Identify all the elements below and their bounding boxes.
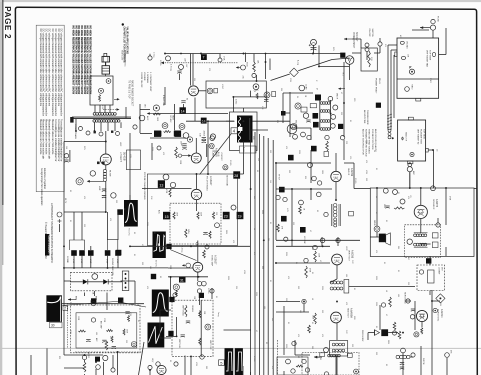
transformer core <box>72 117 131 119</box>
svg-text:1 MEG: 1 MEG <box>354 178 356 184</box>
arrow <box>314 356 322 359</box>
terminal ring <box>305 368 309 372</box>
ring on box edge <box>200 355 204 359</box>
svg-text:A 13A27: A 13A27 <box>209 176 212 186</box>
junction dot <box>322 245 324 247</box>
wire <box>343 128 345 137</box>
resistor <box>164 131 171 133</box>
test point 31 <box>179 277 186 283</box>
terminal ring <box>320 238 325 243</box>
terminal ring <box>324 372 328 375</box>
wire <box>420 219 422 234</box>
wire <box>368 286 415 288</box>
capacitor <box>400 363 404 365</box>
polarized cap <box>309 44 317 50</box>
svg-text:270: 270 <box>208 68 210 71</box>
ring in phase det box <box>92 274 98 280</box>
svg-text:47: 47 <box>255 330 257 332</box>
svg-text:4.5MC: 4.5MC <box>221 84 223 90</box>
arrowed ring <box>182 263 191 268</box>
terminal ring <box>336 238 340 242</box>
wire <box>192 54 194 86</box>
svg-text:POWER INPUT: POWER INPUT <box>352 32 354 49</box>
terminal block2 <box>432 242 438 248</box>
terminal ring <box>286 359 291 364</box>
wire <box>149 370 151 375</box>
svg-text:DC voltages measured with vacu: DC voltages measured with vacuum tube vo… <box>39 29 42 107</box>
svg-text:05: 05 <box>137 320 139 322</box>
vertical wire <box>387 45 389 130</box>
double ring <box>131 342 136 347</box>
svg-text:5 1K2: 5 1K2 <box>429 78 431 83</box>
wire <box>337 237 339 246</box>
wire <box>379 305 381 330</box>
resistor <box>111 336 113 342</box>
1st IF tube <box>287 124 297 134</box>
resistor <box>209 231 211 238</box>
svg-text:14: 14 <box>181 109 185 113</box>
svg-text:4.7meg: 4.7meg <box>170 64 172 71</box>
wire <box>64 211 106 213</box>
svg-text:FOR BEST PICTURE: FOR BEST PICTURE <box>371 129 373 150</box>
tube inner <box>420 314 424 318</box>
svg-text:470: 470 <box>162 152 164 155</box>
junction dot <box>198 276 200 278</box>
svg-text:1 MEG: 1 MEG <box>207 288 209 294</box>
wire <box>428 149 433 151</box>
wire <box>310 150 312 183</box>
svg-text:NO HIGH RESISTANCE VALUES SHOW: NO HIGH RESISTANCE VALUES SHOWN ARE NOT … <box>86 26 89 95</box>
wire <box>211 288 213 299</box>
junction dot <box>176 336 178 338</box>
wire <box>409 163 411 164</box>
wire <box>90 256 92 268</box>
vertical wire <box>390 50 392 130</box>
terminal double ring <box>76 178 83 185</box>
wire <box>196 200 198 211</box>
polarized cap <box>177 71 181 73</box>
wire <box>84 374 86 375</box>
vert output tube (cut) <box>157 365 166 374</box>
wire <box>195 138 197 153</box>
AC interlock socket <box>345 56 354 65</box>
junction dot <box>63 245 65 247</box>
terminal ring <box>111 368 115 372</box>
junction dot <box>75 130 77 132</box>
svg-text:270K: 270K <box>223 56 225 61</box>
vert output transformer2 <box>330 287 343 290</box>
test point <box>91 298 96 303</box>
terminal ring <box>64 154 68 158</box>
terminal ring <box>419 270 423 274</box>
test point <box>281 111 286 116</box>
terminal ring <box>445 353 450 358</box>
junction dot <box>107 267 109 269</box>
svg-text:02: 02 <box>385 364 387 366</box>
scan margin left gray strip <box>0 0 2 375</box>
terminal ring <box>116 132 120 136</box>
terminal dot <box>125 282 127 284</box>
svg-text:300MA: 300MA <box>202 131 205 137</box>
junction dot <box>336 239 338 241</box>
wire <box>388 44 397 46</box>
wire <box>367 333 369 340</box>
double ring <box>291 124 297 130</box>
svg-text:02: 02 <box>133 232 135 234</box>
junction dot <box>445 187 447 189</box>
resistor <box>169 189 171 198</box>
wire <box>64 280 71 282</box>
audio out tube 6DB5 <box>332 254 343 265</box>
terminal ring <box>293 134 298 139</box>
callout box a <box>349 211 354 216</box>
svg-text:4.7M: 4.7M <box>286 208 288 212</box>
wire <box>183 104 185 114</box>
resistor <box>389 297 392 307</box>
capacitor <box>202 141 206 143</box>
vertical bus wire <box>272 140 274 375</box>
svg-text:SOUND IF: SOUND IF <box>432 199 434 210</box>
fuse terminal <box>431 19 435 23</box>
wire <box>219 54 221 58</box>
terminal ring <box>210 136 215 141</box>
svg-text:47: 47 <box>407 258 409 260</box>
wire <box>335 355 337 375</box>
svg-text:220: 220 <box>340 112 342 115</box>
terminal ring <box>307 135 311 139</box>
dashed vertical wire <box>277 340 279 375</box>
wire <box>112 355 114 368</box>
video amp tube 13A27 <box>191 189 201 199</box>
ring <box>408 163 412 167</box>
svg-text:.047: .047 <box>185 64 187 67</box>
VHF tuner box <box>397 38 439 98</box>
AFC inner box <box>76 313 137 348</box>
test point row <box>71 250 77 256</box>
terminal ring <box>202 281 207 286</box>
capacitor <box>203 233 207 235</box>
terminal ring <box>148 56 152 60</box>
callout box <box>214 88 218 93</box>
terminal ring <box>157 146 161 150</box>
wire <box>194 98 196 110</box>
quad coil <box>334 203 337 217</box>
diamond dot <box>439 297 441 299</box>
svg-text:1000MF: 1000MF <box>438 267 440 275</box>
resistor <box>153 113 160 115</box>
wire T1 secondary lead <box>120 122 122 128</box>
wire <box>409 172 411 188</box>
svg-text:02: 02 <box>319 358 321 360</box>
ring in dashed box <box>407 239 412 244</box>
vertical bus wire <box>263 136 265 375</box>
terminal ring <box>302 299 306 303</box>
wire <box>310 189 312 200</box>
callout box <box>310 104 316 108</box>
converter ring <box>299 85 305 91</box>
resistor <box>326 141 329 151</box>
IF can side wire <box>319 100 321 130</box>
wire <box>103 362 105 375</box>
wire <box>125 107 127 118</box>
terminal ring <box>133 125 137 129</box>
svg-text:6BQ7: 6BQ7 <box>151 358 153 362</box>
wire <box>107 212 109 240</box>
svg-text:A 13A27: A 13A27 <box>214 255 217 265</box>
junction dot <box>432 149 434 151</box>
audio section boundary box <box>370 188 474 257</box>
svg-text:SYNC SEP: SYNC SEP <box>210 255 212 267</box>
bracket wire <box>108 240 118 250</box>
capacitor <box>264 100 268 102</box>
terminal ring <box>291 369 295 373</box>
svg-text:POLARITY AC DC: POLARITY AC DC <box>124 50 127 67</box>
wire <box>349 64 351 80</box>
wire <box>336 323 338 340</box>
wire <box>332 58 350 60</box>
wire T1 secondary lead <box>107 122 109 131</box>
test point <box>288 155 294 161</box>
resistor <box>173 212 175 219</box>
scan edge dark vertical line <box>2 0 3 205</box>
svg-text:FROM HORIZ: FROM HORIZ <box>361 330 363 342</box>
resistor <box>128 315 130 321</box>
wire T1 secondary lead <box>100 122 102 131</box>
junction dot <box>310 188 312 190</box>
diode CR1 <box>375 329 389 336</box>
svg-text:SW: SW <box>384 44 386 47</box>
wire <box>88 281 103 283</box>
terminal ring <box>252 73 256 77</box>
diagonal wire <box>298 60 332 71</box>
junction dot <box>207 173 209 175</box>
svg-text:DC voltages measured with vacu: DC voltages measured with vacuum tube vo… <box>45 29 48 117</box>
svg-text:DC voltages measured with vacu: DC voltages measured with vacuum tube vo… <box>48 29 51 107</box>
terminal block <box>432 233 438 238</box>
svg-text:GRAYMARK: GRAYMARK <box>47 236 51 255</box>
terminal ring <box>283 197 287 201</box>
waveform marker <box>166 244 171 249</box>
svg-text:OUT: OUT <box>351 260 353 264</box>
wire <box>105 165 107 170</box>
wire <box>168 267 193 269</box>
wire <box>321 237 323 246</box>
svg-text:AFC DEF: AFC DEF <box>100 321 103 330</box>
wire <box>106 293 108 311</box>
svg-text:05: 05 <box>349 120 351 122</box>
svg-text:100: 100 <box>276 120 278 123</box>
svg-text:DC voltages measured with vacu: DC voltages measured with vacuum tube vo… <box>57 29 60 107</box>
wire <box>64 354 103 356</box>
test point row <box>88 250 94 256</box>
terminal strip <box>122 271 129 291</box>
wire <box>410 356 413 358</box>
terminal ring <box>400 199 405 204</box>
wire <box>291 189 293 240</box>
terminal ring <box>276 195 280 199</box>
wire <box>84 360 86 362</box>
junction dot <box>420 187 422 189</box>
svg-text:47: 47 <box>340 92 342 94</box>
wire <box>140 133 152 135</box>
svg-text:1 MEG: 1 MEG <box>159 60 161 66</box>
svg-text:6AW6: 6AW6 <box>172 115 175 120</box>
wire <box>242 108 244 112</box>
wire <box>439 54 446 56</box>
wire <box>414 310 416 330</box>
fuse terminal <box>430 25 435 30</box>
resistor <box>83 362 86 372</box>
double ring <box>173 284 179 290</box>
quad coil2 <box>334 218 337 227</box>
double ring <box>374 226 380 232</box>
terminal ring with cross <box>57 212 62 223</box>
callout box 4 <box>231 128 237 134</box>
diagonal wire <box>62 302 116 306</box>
svg-text:A 6CM4: A 6CM4 <box>440 309 443 318</box>
ring with dot <box>354 369 359 374</box>
junction dot <box>94 130 96 132</box>
terminal ring <box>401 348 406 353</box>
ring on wire <box>431 186 436 191</box>
resistor <box>99 95 101 102</box>
wire <box>197 272 199 281</box>
svg-text:NO HIGH RESISTANCE VALUES SHOW: NO HIGH RESISTANCE VALUES SHOWN ARE NOT … <box>74 26 77 95</box>
wire <box>289 128 291 137</box>
junction square <box>111 131 113 133</box>
svg-text:47MF: 47MF <box>106 259 108 263</box>
wire <box>445 28 447 55</box>
interlock socket box <box>90 76 113 105</box>
waveform photo <box>152 290 169 317</box>
arrow right <box>344 38 352 41</box>
wire <box>429 256 431 265</box>
svg-text:IF: IF <box>315 80 317 82</box>
svg-text:1ST AGC: 1ST AGC <box>169 115 172 123</box>
resistor <box>421 328 423 335</box>
svg-text:IF AGC LINE: IF AGC LINE <box>162 95 165 107</box>
junction dot <box>207 120 209 122</box>
wire <box>176 317 178 336</box>
coil row <box>332 343 345 346</box>
svg-text:4.5MC: 4.5MC <box>235 99 237 105</box>
resistor <box>314 251 317 262</box>
wire socket to coil <box>94 105 96 113</box>
wire socket to coil <box>99 105 101 113</box>
junction dot <box>196 173 198 175</box>
resistor <box>105 341 108 350</box>
capacitor <box>102 340 106 342</box>
terminal ring <box>139 115 145 121</box>
svg-text:23: 23 <box>224 215 228 219</box>
marker <box>168 331 173 336</box>
terminal ring <box>301 132 306 137</box>
terminal block <box>348 353 353 357</box>
resistor <box>175 147 178 158</box>
terminal ring <box>304 258 308 262</box>
left bus upper <box>63 150 65 192</box>
svg-text:2. NORMAL: 2. NORMAL <box>146 72 149 84</box>
video bus wire <box>186 120 234 122</box>
terminal ring <box>90 171 95 176</box>
wire <box>242 141 244 150</box>
terminal ring <box>308 163 313 168</box>
junction dot <box>335 199 337 201</box>
test point 14 <box>315 95 321 101</box>
wire <box>335 182 337 200</box>
svg-text:330: 330 <box>261 266 263 269</box>
svg-text:330: 330 <box>269 150 271 153</box>
test point <box>174 131 180 137</box>
test point 16 <box>154 131 161 137</box>
svg-text:10 MEG: 10 MEG <box>191 305 193 312</box>
resistor <box>199 338 201 345</box>
wire T1 secondary lead <box>114 122 116 131</box>
wire <box>379 46 381 53</box>
svg-text:NO HIGH RESISTANCE VALUES SHOW: NO HIGH RESISTANCE VALUES SHOWN ARE NOT … <box>77 26 80 95</box>
line cord barrel 2 <box>102 66 110 74</box>
svg-text:68: 68 <box>253 228 255 230</box>
vertical wire <box>343 62 345 128</box>
junction dot <box>291 188 293 190</box>
UHF tuner box <box>398 120 426 161</box>
wire <box>121 280 136 282</box>
scan edge dark line fade <box>1 205 4 265</box>
svg-text:68: 68 <box>373 150 375 152</box>
resistor <box>314 313 317 324</box>
wire <box>151 143 153 160</box>
wire <box>336 265 338 279</box>
test point <box>300 227 306 233</box>
ring with dot <box>253 84 259 90</box>
long B+ bus wire <box>64 267 168 269</box>
junction square <box>94 131 96 133</box>
capacitor <box>125 312 129 314</box>
arrowed ring <box>236 65 246 70</box>
terminal ring <box>215 223 220 228</box>
junction dot <box>105 141 107 143</box>
waveform marker 13 <box>117 209 123 215</box>
svg-text:PAGE 2: PAGE 2 <box>3 6 12 39</box>
AGC tube 6AW8 <box>191 153 201 163</box>
long bus wire <box>130 245 250 247</box>
callout box E <box>301 107 307 112</box>
junction dot <box>129 245 131 247</box>
capacitor <box>182 144 186 146</box>
IF coil row <box>320 102 330 105</box>
svg-text:AND SOUND QUALITY: AND SOUND QUALITY <box>374 129 377 152</box>
svg-text:IN60: IN60 <box>95 296 97 300</box>
svg-text:05: 05 <box>385 220 387 222</box>
wire <box>70 281 82 283</box>
svg-text:220: 220 <box>285 298 287 301</box>
waveform photo (vert) <box>124 200 138 227</box>
terminal ring <box>378 42 382 46</box>
video amp section box <box>147 174 237 246</box>
vertical wire <box>431 290 433 375</box>
svg-text:Measured values are from socke: Measured values are from socke <box>39 119 42 155</box>
waveform photo (agc) <box>46 295 62 322</box>
line cord lead <box>105 74 107 76</box>
scan margin top gray strip <box>0 0 481 2</box>
svg-text:OSC ADJ: OSC ADJ <box>406 41 409 49</box>
svg-text:VHF TUNER TAB: VHF TUNER TAB <box>426 50 429 67</box>
coil row2 <box>414 243 428 247</box>
terminal ring <box>292 341 296 345</box>
resistor <box>106 330 112 332</box>
wire <box>153 113 228 115</box>
terminal ring <box>82 355 86 359</box>
